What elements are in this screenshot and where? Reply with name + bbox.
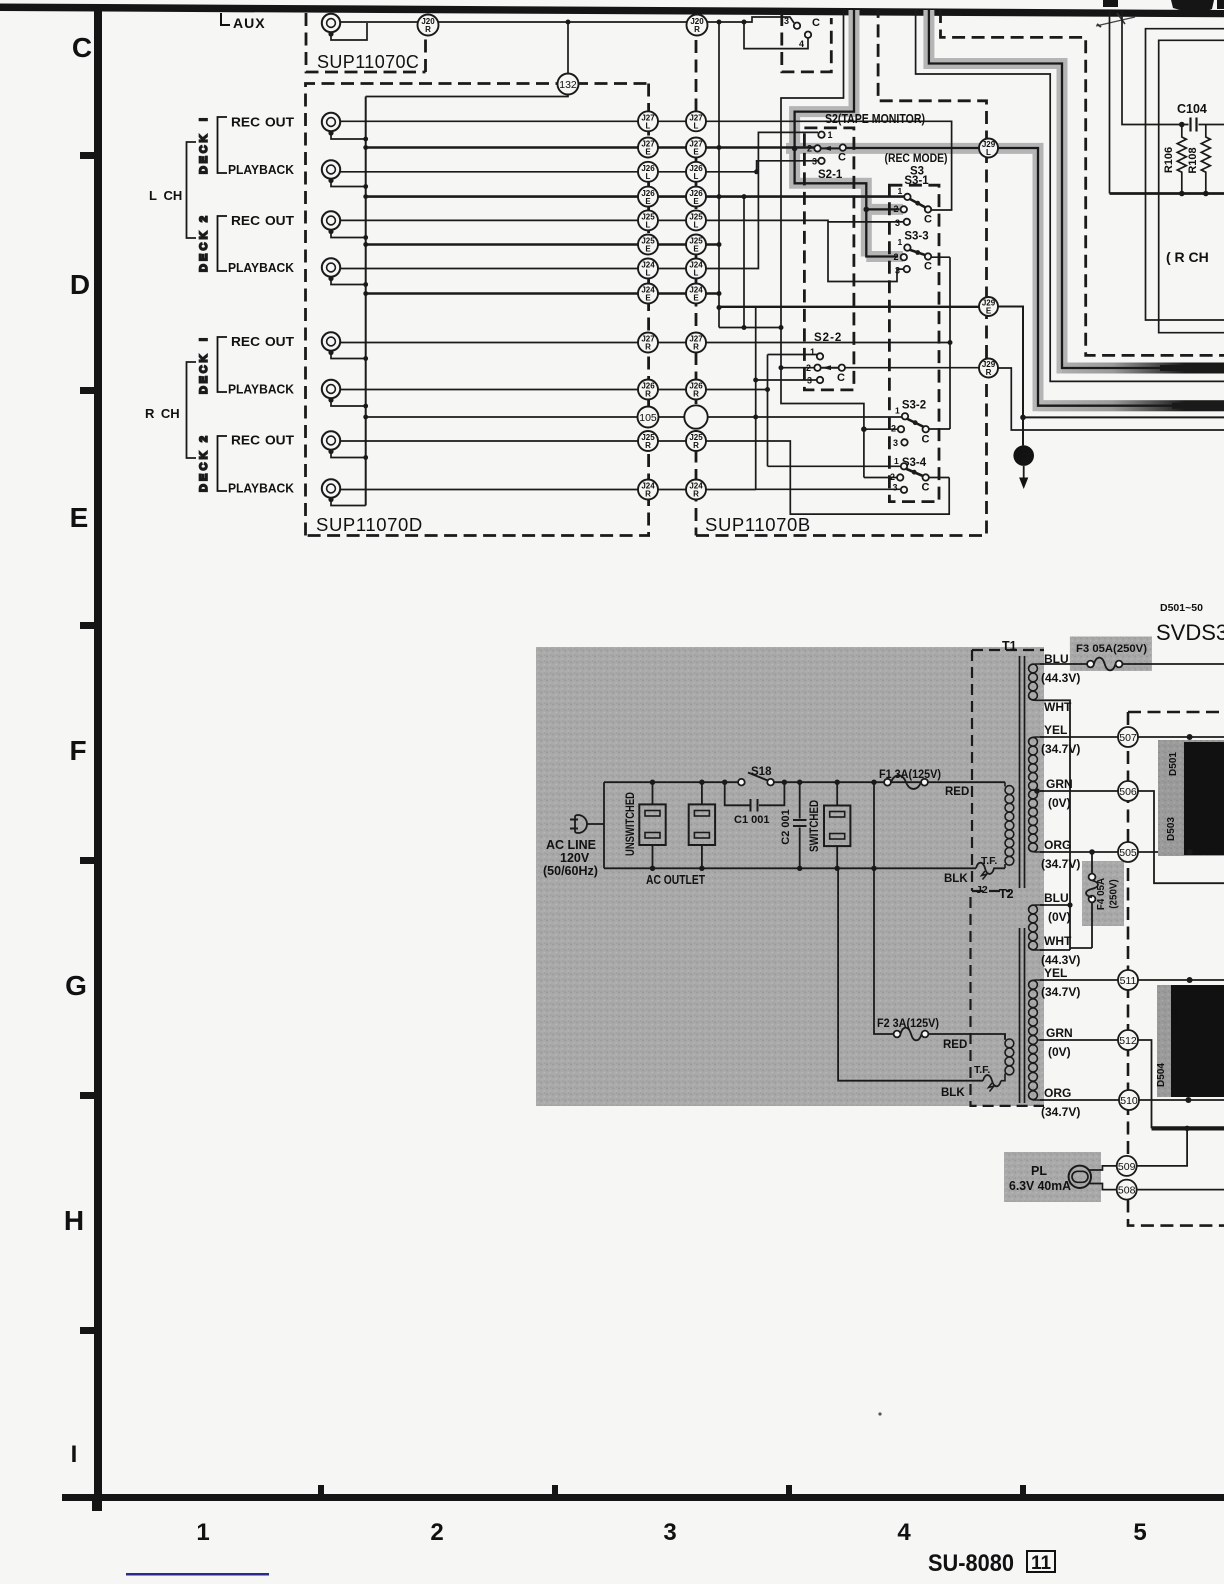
gray path core branch to S3-1 contact2: [866, 208, 899, 210]
transformer T2 core: [1020, 928, 1025, 1103]
wire stub S3-2 contact 2: [864, 428, 898, 430]
YEL2 tap wire through node 511: [1040, 979, 1224, 981]
svg-text:S2(TAPE MONITOR): S2(TAPE MONITOR): [825, 112, 925, 126]
svg-text:E: E: [70, 502, 89, 533]
connector pins J24L: [638, 259, 658, 279]
ground bus top link to node 132: [366, 95, 568, 97]
transformer T1/T2 dashed boundary: [971, 650, 1045, 1106]
dashed box SUP11070D: [306, 84, 649, 536]
svg-text:L: L: [646, 122, 651, 131]
svg-text:E: E: [986, 307, 992, 316]
pilot lamp PL 6.3V 40mA: [1009, 1164, 1091, 1193]
svg-text:1: 1: [810, 347, 815, 357]
unlabeled connector circle: [684, 405, 707, 428]
svg-text:2: 2: [891, 424, 896, 434]
transformer T2 primary winding: [1001, 1034, 1014, 1081]
svg-text:F4 05A: F4 05A: [1096, 878, 1107, 910]
junction dots on earth bus: [717, 20, 760, 331]
transformer T1 primary winding: [1005, 782, 1014, 868]
svg-text:D504: D504: [1156, 1063, 1167, 1087]
svg-text:H: H: [64, 1205, 84, 1236]
switch S3-4 contacts: [901, 463, 907, 469]
wire F2 to T2 primary: [928, 1034, 1005, 1039]
svg-text:REC OUT: REC OUT: [231, 433, 294, 448]
R CH bracket: [187, 362, 197, 458]
svg-text:R: R: [645, 343, 651, 352]
svg-text:505: 505: [1119, 847, 1137, 859]
svg-text:F: F: [1019, 449, 1028, 465]
supply connector node 505: [1118, 842, 1138, 862]
wire J24E row to earth bus: [366, 292, 719, 295]
svg-text:C: C: [838, 152, 846, 164]
svg-text:AC OUTLET: AC OUTLET: [646, 873, 705, 887]
node 132: [558, 74, 579, 95]
svg-text:I: I: [71, 1441, 78, 1468]
svg-text:BLK: BLK: [944, 873, 968, 885]
highlight: S2-1 feed from top border: [795, 10, 867, 257]
AC left vertical: [603, 782, 605, 868]
svg-text:S3-2: S3-2: [902, 400, 926, 412]
highlight: branch to S3-3 contact 2: [866, 251, 903, 262]
svg-text:3: 3: [895, 266, 900, 276]
connector pin J20R (board): [687, 15, 708, 36]
left border ticks: [80, 152, 95, 159]
svg-text:C: C: [924, 261, 932, 273]
svg-text:REC OUT: REC OUT: [231, 213, 294, 228]
svg-text:R: R: [693, 490, 699, 499]
AC top rail: [604, 781, 1005, 783]
svg-text:T.F.: T.F.: [974, 1064, 990, 1076]
switch S3-4 arm: [906, 469, 924, 477]
connector pins J24E: [638, 284, 658, 304]
svg-text:F1 3A(125V): F1 3A(125V): [879, 769, 941, 781]
T2 BLU tap wire: [1040, 904, 1070, 906]
svg-text:L: L: [694, 122, 699, 131]
fuse F4 05A(250V): [1086, 852, 1120, 948]
switch S3-2 arm: [907, 419, 925, 428]
T1 secondary winding BLU-WHT: [1029, 664, 1044, 700]
svg-text:(44.3V): (44.3V): [1041, 953, 1080, 967]
power supply gray panel: [536, 647, 1044, 1106]
svg-text:L: L: [694, 269, 699, 278]
dashed box SUP11070B bottom and right through J29: [696, 10, 987, 536]
connector pins J26R: [638, 380, 658, 400]
switch S2-2 arm: [821, 367, 839, 369]
inner solid box right edge: [1159, 40, 1224, 332]
svg-text:R108: R108: [1187, 147, 1199, 173]
svg-text:D503: D503: [1166, 817, 1177, 841]
wire to S2-2 contact 3 / S3-4 contact 3 riser: [756, 308, 901, 490]
svg-text:WHT: WHT: [1044, 700, 1072, 714]
capacitor C104: [1177, 102, 1207, 132]
supply connector node 509: [1117, 1156, 1137, 1176]
dashed box S3 (rec mode switch): [889, 185, 939, 501]
AC outlet switched: [824, 782, 850, 868]
connector pins J25L: [638, 210, 658, 230]
junction dots R network: [1179, 122, 1209, 197]
wire from border to R-network rail: [1109, 11, 1111, 194]
wire J25R row to S3-4 C: [340, 441, 949, 514]
svg-text:1: 1: [828, 130, 833, 140]
rectifier D501/D503 block: [1158, 740, 1224, 856]
wire to S2-2 contact 1 and S3-4 contact 1 riser: [768, 355, 818, 467]
svg-text:L: L: [694, 172, 699, 181]
svg-text:L: L: [646, 172, 651, 181]
wire J29R to right edge y430: [998, 368, 1224, 430]
node 105: [638, 407, 659, 428]
svg-text:2: 2: [430, 1519, 443, 1546]
S3-3 contact labels: [894, 237, 933, 276]
supply connector node 510: [1119, 1090, 1139, 1110]
gray path core: junction down and over to S3 contacts: [795, 148, 898, 256]
wire J26E row to S3-1 contact 1: [366, 195, 904, 198]
svg-text:YEL: YEL: [1044, 723, 1067, 737]
svg-text:DECK I: DECK I: [198, 118, 210, 174]
svg-text:508: 508: [1118, 1185, 1136, 1197]
wire J25E row to earth bus: [366, 243, 719, 246]
svg-text:105: 105: [639, 412, 657, 424]
wire from top border to S2-2 contact 2 and S3-2/S3-4 contact 2: [781, 10, 864, 478]
svg-text:2: 2: [894, 204, 899, 214]
svg-text:C104: C104: [1177, 102, 1207, 116]
wire J26L row to S2-1 contact 3: [340, 161, 818, 172]
svg-text:1: 1: [895, 406, 900, 416]
dashed line J-column 1 (SUP11070D right edge): [306, 84, 649, 536]
junction dots AC rails: [650, 780, 877, 872]
svg-text:R: R: [693, 390, 699, 399]
node 508 wire to right edge: [1136, 1189, 1224, 1191]
svg-text:1: 1: [898, 186, 903, 196]
switch S3-3 contacts: [904, 244, 910, 250]
wire J27E row (earth) to S2-1 contact 2: [366, 146, 814, 149]
supply connector node 511: [1118, 970, 1138, 990]
svg-text:3: 3: [807, 376, 812, 386]
resistor R108: [1187, 125, 1210, 194]
supply connector node 512: [1118, 1030, 1138, 1050]
connector pins J27E: [638, 138, 658, 158]
AC bottom rail: [604, 867, 976, 869]
wire stub S2-2 contact 3: [756, 379, 817, 381]
YEL tap wire through node 507: [1040, 736, 1224, 738]
svg-text:R: R: [645, 390, 651, 399]
svg-text:1: 1: [898, 237, 903, 247]
svg-text:(44.3V): (44.3V): [1041, 671, 1080, 685]
jack L deck1 rec out: [322, 113, 340, 136]
fuse F3 highlight box: [1070, 637, 1152, 672]
fuse F4 highlight box: [1082, 861, 1124, 926]
switch S18: [738, 766, 774, 786]
connector pins J26E: [638, 187, 658, 207]
svg-text:507: 507: [1119, 732, 1137, 744]
svg-text:R: R: [645, 490, 651, 499]
svg-text:(34.7V): (34.7V): [1041, 857, 1080, 871]
svg-text:4: 4: [897, 1519, 911, 1546]
connector pins J27R: [638, 333, 658, 353]
svg-text:T1: T1: [1002, 639, 1017, 653]
svg-text:D: D: [70, 269, 90, 300]
svg-text:SWITCHED: SWITCHED: [809, 800, 821, 852]
gray path core: S2-1 C to J29L to right edge heavy: [846, 148, 1176, 406]
svg-text:R: R: [694, 25, 700, 34]
svg-text:D501: D501: [1168, 752, 1179, 776]
svg-text:S2-2: S2-2: [814, 332, 842, 344]
svg-text:R: R: [425, 25, 431, 34]
svg-text:C: C: [924, 214, 932, 226]
F4 to WHT link: [1070, 947, 1092, 949]
svg-text:(34.7V): (34.7V): [1041, 985, 1080, 999]
svg-text:E: E: [693, 197, 699, 206]
muting switch contact 4: [805, 32, 811, 38]
connector pin J20R (panel): [418, 15, 439, 36]
svg-text:F2 3A(125V): F2 3A(125V): [877, 1018, 939, 1030]
svg-text:AUX: AUX: [233, 15, 266, 31]
svg-text:L: L: [646, 269, 651, 278]
ground bus vertical: [365, 97, 367, 506]
fuse F3 05A(250V): [1076, 643, 1147, 670]
connector pins J27L: [638, 111, 658, 131]
capacitor C1 001 across S18: [725, 782, 785, 826]
fuse F2 3A(125V): [877, 1018, 967, 1051]
T2 secondary winding BLU-WHT: [1029, 905, 1044, 950]
svg-text:(50/60Hz): (50/60Hz): [543, 864, 598, 878]
svg-text:REC OUT: REC OUT: [231, 115, 294, 130]
bottom tick under border start: [92, 1501, 102, 1511]
wire branch to muting contact 4: [744, 22, 808, 49]
stray speck: [878, 1412, 881, 1415]
T2 WHT tap wire: [1040, 948, 1070, 950]
winding tap labels: [1041, 652, 1080, 1119]
svg-text:E: E: [645, 294, 651, 303]
earth bus to J29E wire: [719, 306, 979, 308]
svg-text:E: E: [645, 197, 651, 206]
S3-4 contact labels: [890, 456, 930, 494]
highlight: outer staircase from top border to right edge: [929, 10, 1224, 368]
wire from top border via x1050 to right edge y381.4: [916, 10, 1224, 381]
gray path core: from top to S2-1 contact2 junction: [795, 8, 854, 148]
junction on AUX wire at node 132 riser: [566, 20, 571, 25]
svg-text:C: C: [72, 32, 92, 63]
AUX ground loop wire: [331, 23, 367, 40]
muting switch contact 3: [794, 23, 800, 29]
AC plug: [570, 815, 604, 833]
wire BLK return to switched outlet: [838, 868, 983, 1080]
svg-text:1: 1: [894, 456, 899, 466]
L CH bracket: [187, 142, 197, 238]
fuse F1 3A(125V): [879, 769, 969, 798]
AUX jack J1: [322, 14, 340, 37]
wire J24R row: [340, 489, 756, 491]
svg-text:S18: S18: [751, 766, 772, 778]
svg-text:(0V): (0V): [1048, 910, 1071, 924]
svg-text:3: 3: [893, 483, 898, 493]
WHT tap wire and long vertical: [1044, 700, 1070, 948]
svg-text:2: 2: [890, 472, 895, 482]
GRN tap wire through node 506: [1040, 791, 1224, 883]
svg-text:S3-1: S3-1: [904, 175, 929, 187]
top border line: [0, 4, 1224, 18]
highlight: branch to S3-1 contact 2: [866, 204, 903, 215]
scratch marks top right: [1096, 17, 1135, 26]
wire J27L row (L deck1 rec out) to S3-1 C: [340, 121, 952, 210]
highlight: S2-1 C to J29L and down to right edge: [786, 148, 1224, 405]
svg-text:R CH: R CH: [145, 406, 180, 421]
switch S3-1 arm: [909, 199, 927, 209]
svg-text:DECK 2: DECK 2: [198, 436, 210, 492]
label AUX: [221, 13, 266, 31]
svg-text:506: 506: [1119, 786, 1137, 798]
svg-text:132: 132: [559, 79, 577, 91]
ORG tap wire through node 505: [1040, 851, 1224, 853]
switch S2-1 arm: [821, 147, 840, 149]
R-network bottom rail: [1110, 192, 1224, 195]
svg-text:E: E: [645, 245, 651, 254]
svg-text:(REC MODE): (REC MODE): [885, 151, 948, 165]
heavy black segment right edge y405.7: [1172, 403, 1224, 409]
heavy line y1128 to right edge: [1152, 1126, 1224, 1130]
svg-text:T.F.: T.F.: [981, 855, 997, 867]
svg-text:G: G: [65, 970, 87, 1001]
svg-text:C2 001: C2 001: [780, 809, 792, 844]
svg-text:ORG: ORG: [1044, 838, 1071, 852]
svg-text:F3 05A(250V): F3 05A(250V): [1076, 643, 1147, 655]
svg-text:SUP11070D: SUP11070D: [316, 514, 423, 535]
svg-text:GRN: GRN: [1046, 777, 1073, 791]
outer solid box right edge: [1146, 29, 1224, 320]
earth bus vertical x719: [718, 22, 720, 328]
S3-2 contact labels: [891, 406, 930, 449]
node F with arrow: [1013, 445, 1034, 489]
svg-text:DECK 2: DECK 2: [198, 216, 210, 272]
svg-text:GRN: GRN: [1046, 1026, 1073, 1040]
svg-text:E: E: [693, 148, 699, 157]
svg-text:E: E: [693, 245, 699, 254]
svg-text:1: 1: [196, 1519, 209, 1546]
svg-text:E: E: [645, 148, 651, 157]
svg-text:(0V): (0V): [1048, 796, 1071, 810]
svg-text:S2-1: S2-1: [818, 169, 843, 181]
svg-text:E: E: [693, 294, 699, 303]
svg-text:2: 2: [807, 144, 812, 154]
wire stub S2-2 contact 2: [781, 367, 814, 369]
dashed staircase top right: [941, 10, 1224, 355]
svg-text:R: R: [693, 343, 699, 352]
svg-text:R: R: [986, 368, 992, 377]
svg-text:YEL: YEL: [1044, 966, 1067, 980]
transformer T1 core: [1020, 656, 1025, 888]
svg-text:SUP11070C: SUP11070C: [317, 52, 419, 72]
svg-text:C: C: [837, 372, 845, 384]
svg-text:(34.7V): (34.7V): [1041, 742, 1080, 756]
svg-text:L CH: L CH: [149, 188, 182, 203]
svg-text:RED: RED: [945, 786, 969, 798]
heavy black segment right edge y368: [1160, 365, 1224, 371]
svg-text:PLAYBACK: PLAYBACK: [228, 260, 295, 275]
capacitor C2 001 across line: [780, 782, 807, 868]
jack labels L channel: [228, 115, 295, 496]
pilot lamp PL highlight box: [1004, 1152, 1101, 1202]
svg-text:3: 3: [895, 218, 900, 228]
svg-text:AC LINE: AC LINE: [546, 838, 596, 852]
svg-text:F: F: [69, 735, 86, 766]
wire from border to C104 node: [1122, 11, 1224, 125]
node 509 wire up to heavy line: [1136, 1128, 1187, 1166]
jack R deck2 playback: [322, 479, 340, 502]
connector pin J29E: [979, 297, 998, 316]
ORG2 tap wire through node 510: [1040, 1099, 1224, 1101]
jack R deck1 playback: [322, 380, 340, 403]
svg-text:C: C: [922, 434, 930, 446]
svg-text:R: R: [645, 441, 651, 450]
black nub on top border: [1103, 0, 1118, 7]
S2-2 contact labels: [806, 347, 845, 386]
svg-text:510: 510: [1120, 1095, 1138, 1107]
dashed box S2 (tape monitor switch): [804, 128, 854, 390]
supply connector node 506: [1118, 781, 1138, 801]
svg-text:J2: J2: [976, 884, 988, 896]
dashed line through supply nodes: [1128, 712, 1224, 1226]
highlight darkening near right edge (outer): [1062, 363, 1224, 374]
svg-text:2: 2: [806, 363, 811, 373]
wire J26R row / S3-4 contact 1 stub: [340, 390, 901, 467]
svg-text:3: 3: [812, 157, 817, 167]
svg-text:RED: RED: [943, 1039, 967, 1051]
svg-text:(250V): (250V): [1109, 879, 1120, 908]
S2-1 contact labels: [807, 130, 846, 181]
svg-text:(0V): (0V): [1048, 1045, 1071, 1059]
S3-1 contact labels: [894, 186, 933, 228]
junction dots right side: [1034, 734, 1192, 1103]
wire S2-2 C to J29R: [846, 367, 980, 369]
wire AUX row to muting contact 3: [340, 17, 794, 23]
connector pins J24R: [638, 480, 658, 500]
connector pins J25E: [638, 235, 658, 255]
supply connector node 508: [1117, 1180, 1137, 1200]
svg-text:PL: PL: [1031, 1164, 1047, 1178]
svg-text:C1 001: C1 001: [734, 814, 769, 826]
jack L deck2 playback: [322, 258, 340, 281]
T1 secondary winding YEL-GRN-ORG: [1029, 737, 1044, 852]
earth bus branch y327.5: [719, 327, 781, 329]
gray path core: outer staircase: [929, 10, 1164, 368]
switch S3-3 arm: [909, 250, 927, 256]
bottom ruler line: [62, 1494, 1224, 1501]
svg-text:3: 3: [784, 16, 789, 26]
dashed box SUP11070C: [306, 13, 426, 72]
svg-text:T2: T2: [999, 887, 1014, 901]
thermal fuse T.F. (T1): [944, 855, 1005, 885]
wire J25L row to S3-1/S3-3 contact 3: [340, 220, 903, 281]
jack L deck1 playback: [322, 160, 340, 183]
wire J27R row to S3-2 C trunk: [340, 257, 950, 429]
svg-text:BLU: BLU: [1044, 891, 1069, 905]
jack L deck2 rec out: [322, 211, 340, 234]
svg-text:ORG: ORG: [1044, 1086, 1071, 1100]
svg-text:BLU: BLU: [1044, 652, 1069, 666]
label S3 / S3-1: [904, 166, 929, 188]
wire stub S3-1 contact 3: [828, 221, 903, 223]
jack R deck2 rec out: [322, 431, 340, 454]
junction dots on ground bus: [363, 137, 368, 460]
label AC LINE 120V (50/60Hz): [543, 838, 598, 878]
switch S2-1 contacts: [818, 132, 824, 138]
svg-text:L: L: [694, 221, 699, 230]
svg-text:PLAYBACK: PLAYBACK: [228, 162, 295, 177]
svg-text:C: C: [812, 17, 820, 29]
lamp wires to nodes 509/508: [1090, 1166, 1118, 1170]
svg-text:11: 11: [1031, 1553, 1052, 1574]
svg-text:L: L: [986, 148, 991, 157]
svg-text:5: 5: [1133, 1519, 1146, 1546]
